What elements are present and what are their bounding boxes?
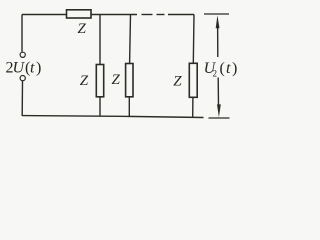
wire left vertical from corner to source top terminal [21,15,23,52]
U2 arrowhead down [217,104,221,117]
resistor Z3 (branch 2) [126,64,133,97]
svg-text:Z: Z [173,74,182,90]
resistor Z4 (branch 3) [189,63,197,97]
wire dash segment 1 [142,14,153,16]
svg-text:U2(t): U2(t) [204,60,238,79]
svg-text:Z: Z [80,73,89,89]
wire source bottom to ground rail [21,81,23,116]
svg-text:Z: Z [78,21,87,37]
wire bottom rail [22,116,203,118]
wire branch1 bottom [99,97,101,116]
wire dash segment 2 [157,14,165,16]
wire top middle [91,14,137,16]
wire branch2 bottom [128,97,130,117]
wire top right to corner [168,14,194,16]
wire branch2 top [129,15,132,64]
node bottom bar of U2 port [209,117,230,119]
terminal circle source bottom [20,76,25,81]
wire branch1 top [99,15,101,65]
wire top-left horizontal [22,14,66,16]
U2 arrowhead up [216,15,220,28]
wire branch3 right vertical top [192,15,195,64]
svg-text:Z: Z [112,72,121,88]
svg-text:2U(t): 2U(t) [6,59,42,76]
wire U2 arrow shaft upper [217,22,219,57]
node top bar of U2 port [204,13,229,15]
resistor Z2 (branch 1) [96,65,103,97]
wire U2 arrow shaft lower [217,78,219,108]
terminal circle source top [20,52,25,57]
resistor Z1 (top horizontal) [67,10,92,18]
wire branch3 bottom [192,97,194,117]
